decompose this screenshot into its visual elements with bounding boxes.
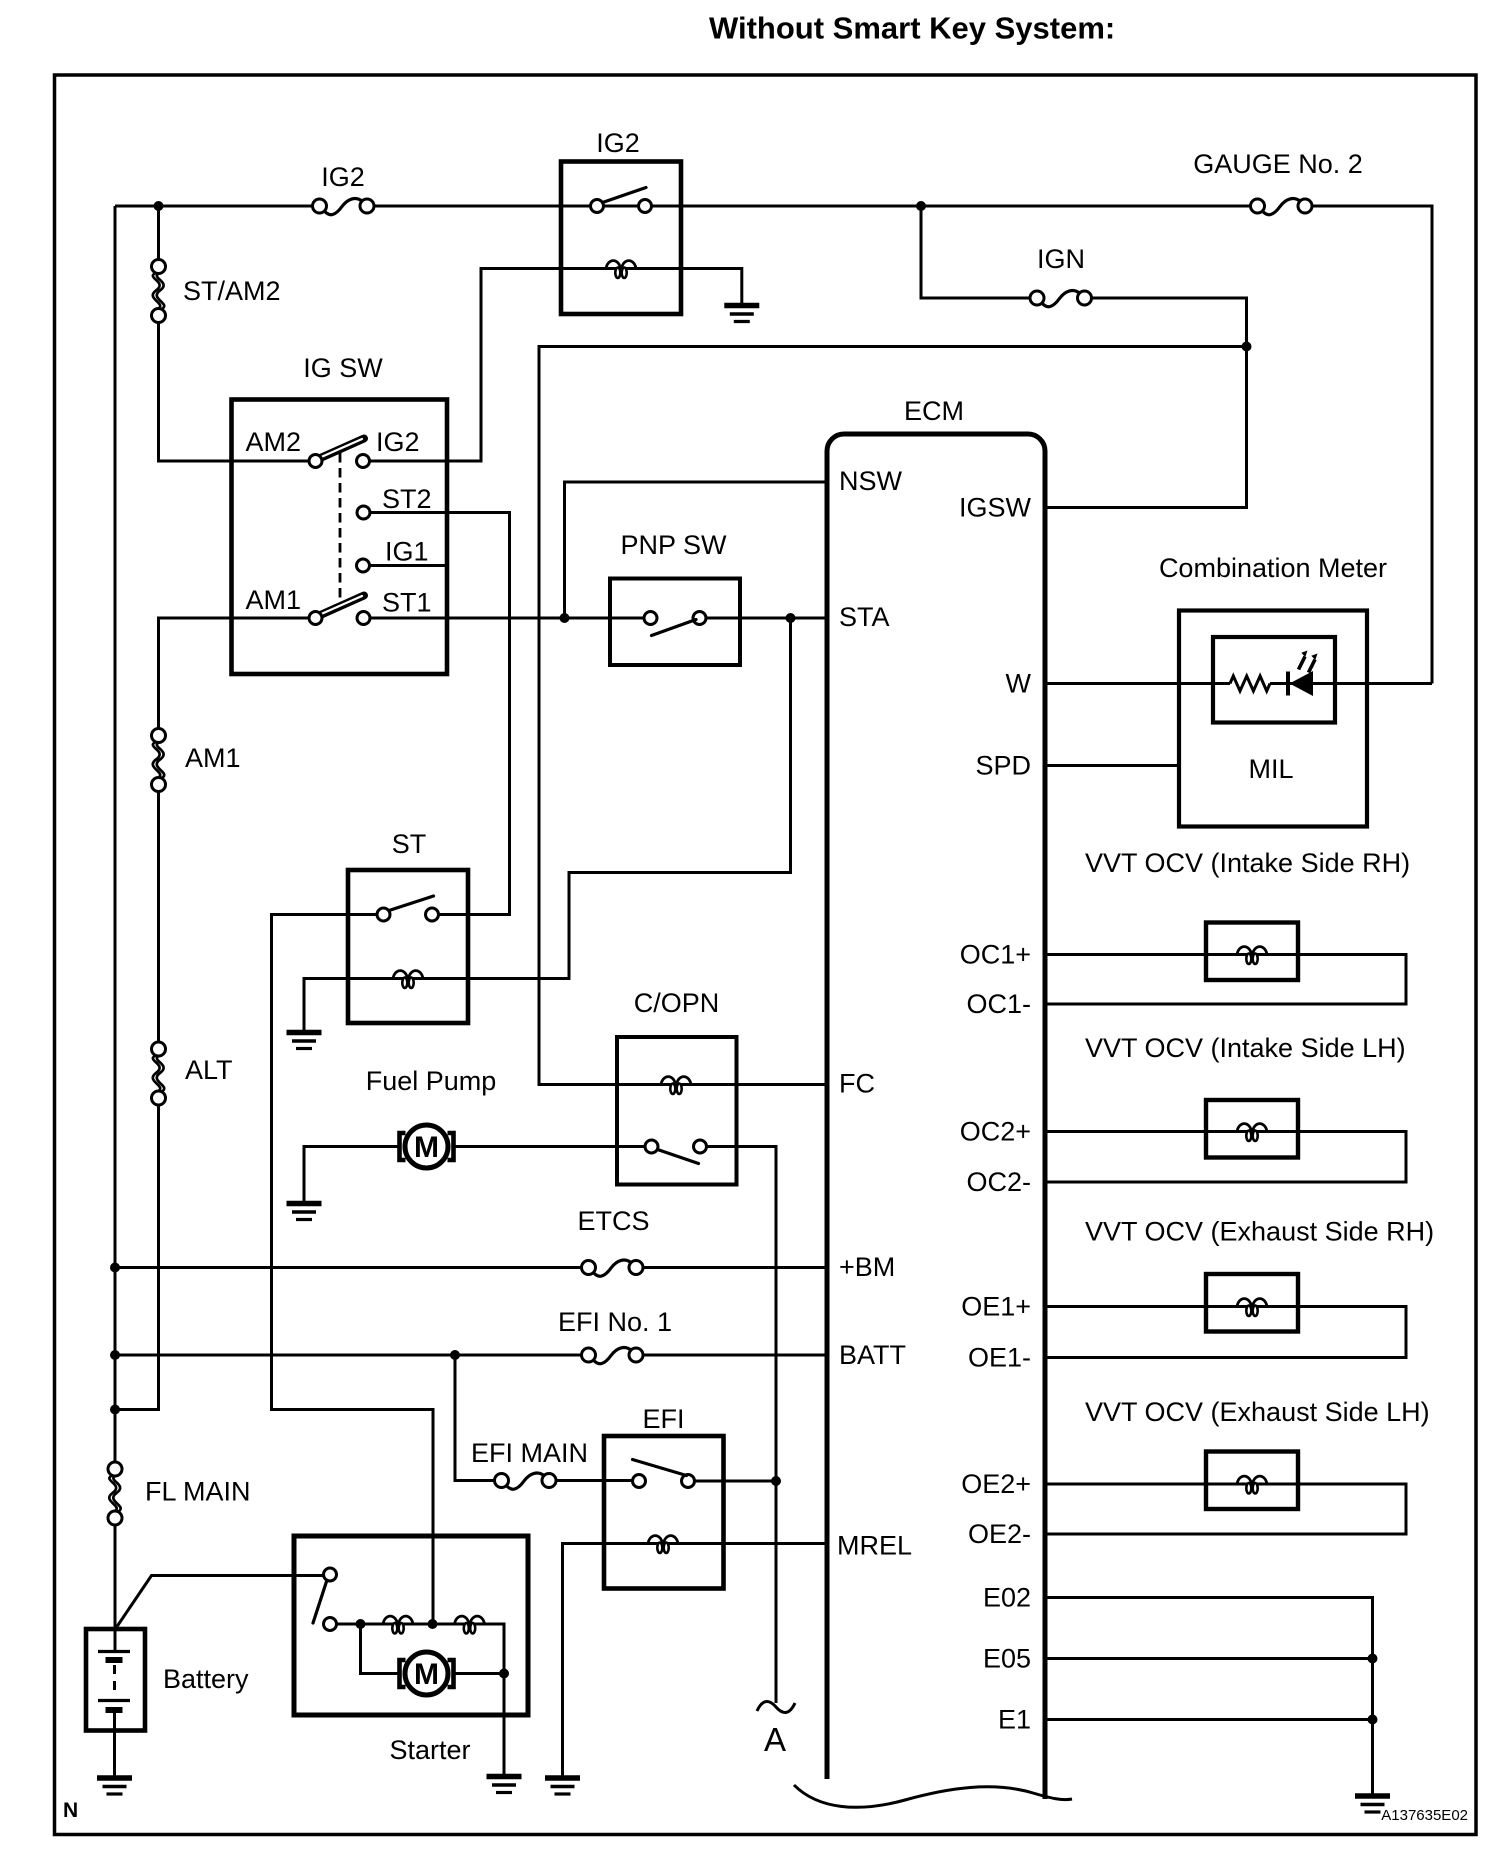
MIL lamp box — [1213, 637, 1335, 723]
svg-text:ETCS: ETCS — [577, 1206, 649, 1236]
node junction BATT row — [110, 1350, 120, 1360]
svg-text:OE1-: OE1- — [968, 1343, 1031, 1373]
wire C/OPN switch to node A rail — [737, 1147, 777, 1704]
ground ST relay coil — [287, 1033, 322, 1049]
svg-text:W: W — [1006, 669, 1032, 699]
VVT OCV exhaust LH coil — [1237, 1476, 1267, 1493]
svg-text:OC1-: OC1- — [966, 989, 1031, 1019]
svg-text:AM1: AM1 — [185, 743, 241, 773]
wire NSW pin — [565, 482, 825, 618]
ground ECM E-lines — [1355, 1796, 1390, 1812]
wire C/OPN switch row — [617, 1145, 737, 1148]
starter switch lever — [313, 1582, 327, 1624]
svg-text:IGN: IGN — [1037, 244, 1085, 274]
wire starter motor left — [361, 1624, 401, 1674]
wire IG2 coil to ground — [681, 269, 742, 304]
node junction E05 — [1368, 1654, 1378, 1664]
ground fuel pump — [287, 1204, 322, 1220]
svg-text:Battery: Battery — [163, 1664, 249, 1694]
VVT OCV intake RH coil — [1237, 947, 1267, 964]
relay C/OPN box — [617, 1037, 737, 1185]
terminal IG2 — [357, 455, 370, 468]
ground starter — [487, 1777, 522, 1793]
battery dashed middle — [113, 1665, 116, 1696]
fuse EFI No. 1 — [582, 1348, 644, 1364]
terminal AM1 — [309, 612, 322, 625]
wire +BM row left — [115, 1266, 582, 1269]
wire EFI switch to node A rail — [695, 1480, 777, 1483]
svg-text:FC: FC — [839, 1069, 875, 1099]
wire battery negative to ground — [113, 1712, 116, 1776]
wire PNP SW row — [610, 617, 740, 620]
solenoid coil 1 — [383, 1616, 413, 1633]
node junction +BM row — [110, 1263, 120, 1273]
PNP SW contacts — [644, 612, 657, 625]
wire BATT row right — [643, 1354, 825, 1357]
wire EFI MAIN fuse to EFI relay — [556, 1479, 633, 1482]
svg-text:OC2-: OC2- — [966, 1167, 1031, 1197]
VVT OCV intake LH coil — [1237, 1124, 1267, 1141]
wire IG2 relay switch row — [561, 205, 681, 208]
wire ST/AM2 to AM2 terminal — [159, 323, 310, 462]
svg-text:E05: E05 — [983, 1644, 1031, 1674]
svg-text:OC1+: OC1+ — [960, 940, 1031, 970]
node junction solenoid mid — [428, 1619, 438, 1629]
svg-text:ALT: ALT — [185, 1055, 233, 1085]
svg-text:OE2+: OE2+ — [961, 1469, 1031, 1499]
VVT OCV intake RH coil box — [1206, 923, 1298, 981]
svg-text:ST: ST — [392, 829, 427, 859]
fusible link FL MAIN — [108, 1462, 122, 1525]
svg-text:Starter: Starter — [389, 1735, 470, 1765]
node junction IGN rail — [1242, 342, 1252, 352]
svg-text:MIL: MIL — [1248, 754, 1293, 784]
wire FL MAIN to battery — [114, 1525, 117, 1650]
wire ST relay coil row — [348, 977, 468, 980]
relay EFI coil — [648, 1536, 678, 1553]
ground battery — [97, 1778, 132, 1794]
battery plate long top — [98, 1650, 130, 1653]
wire battery positive to starter switch — [116, 1576, 324, 1629]
wire IGN rail to C/OPN coil feed — [539, 347, 1247, 1085]
wire ST coil to ground — [304, 979, 348, 1031]
svg-text:NSW: NSW — [839, 466, 903, 496]
fuse IGN — [1030, 291, 1092, 307]
fusible link AM1 — [152, 729, 166, 792]
node junction EFI output — [771, 1476, 781, 1486]
svg-text:A137635E02: A137635E02 — [1381, 1807, 1468, 1824]
svg-text:EFI No. 1: EFI No. 1 — [558, 1307, 672, 1337]
starter switch bottom contact — [324, 1618, 337, 1631]
wire IG2 terminal to IG2 relay coil — [370, 269, 562, 462]
wire OC2 loop — [1047, 1132, 1406, 1183]
wire STA to ST relay coil — [468, 618, 791, 979]
wire EFI coil to MREL — [724, 1542, 825, 1545]
wire battery main feed vertical — [114, 206, 117, 1463]
battery plate short bottom — [106, 1707, 123, 1713]
wire AM1 link to ALT link — [157, 792, 160, 1043]
PNP SW lever — [652, 620, 697, 636]
battery plate long bottom — [98, 1699, 130, 1702]
terminal AM2 — [309, 455, 322, 468]
svg-text:ST1: ST1 — [382, 588, 432, 618]
LED MIL cathode bar — [1286, 672, 1290, 696]
svg-text:C/OPN: C/OPN — [634, 988, 720, 1018]
svg-text:OC2+: OC2+ — [960, 1117, 1031, 1147]
svg-text:VVT OCV (Exhaust Side LH): VVT OCV (Exhaust Side LH) — [1085, 1397, 1430, 1427]
wire fuel pump motor left to ground — [304, 1147, 400, 1202]
relay IG2 coil — [606, 261, 636, 278]
wire ST/AM2 branch top — [157, 206, 160, 260]
terminal IG1 — [357, 559, 370, 572]
battery box — [86, 1629, 145, 1731]
wire GAUGE fuse to W line — [1312, 206, 1433, 684]
svg-text:PNP SW: PNP SW — [620, 530, 727, 560]
fusible link ALT — [152, 1042, 166, 1105]
wire ST relay switch row — [348, 913, 468, 916]
ST relay switch contacts — [377, 908, 390, 921]
resistor MIL — [1230, 676, 1270, 691]
wire OE2 loop — [1047, 1484, 1406, 1534]
wire starter to ground — [503, 1674, 506, 1775]
VVT OCV exhaust LH coil box — [1206, 1452, 1298, 1510]
relay IG2 box — [561, 162, 681, 315]
svg-text:Combination Meter: Combination Meter — [1159, 553, 1387, 583]
wire ST relay switch to starter solenoid — [272, 915, 434, 1624]
switch PNP SW box — [610, 579, 740, 666]
wire ST1 row to PNP SW and STA — [370, 617, 610, 620]
wire IGN branch — [921, 206, 1031, 298]
relay C/OPN coil — [661, 1077, 691, 1094]
battery plate short top — [106, 1657, 123, 1663]
svg-text:A: A — [764, 1721, 786, 1758]
lever AM2-IG2 — [317, 439, 364, 460]
wire IG2 fuse to IG2 relay — [375, 205, 562, 208]
fuse GAUGE No.2 — [1251, 199, 1313, 215]
relay EFI box — [604, 1436, 724, 1589]
EFI switch lever — [633, 1460, 687, 1476]
svg-text:GAUGE No. 2: GAUGE No. 2 — [1193, 149, 1363, 179]
node A break symbol — [757, 1701, 795, 1712]
wire starter motor right — [453, 1672, 504, 1675]
svg-text:Without Smart Key System:: Without Smart Key System: — [709, 11, 1115, 46]
node junction solenoid left — [356, 1619, 366, 1629]
wire W pin row — [1047, 682, 1230, 685]
wire BATT tap down to EFI MAIN fuse — [455, 1355, 495, 1481]
fuse ETCS — [582, 1260, 644, 1276]
relay IG2 switch lever — [603, 188, 647, 203]
C/OPN switch lever — [658, 1150, 699, 1164]
wire fuel pump motor to C/OPN switch — [453, 1145, 645, 1148]
wire starter solenoid row — [337, 1624, 505, 1674]
LED MIL arrow 2 — [1309, 660, 1316, 673]
svg-text:SPD: SPD — [975, 751, 1031, 781]
svg-text:OE2-: OE2- — [968, 1519, 1031, 1549]
relay ST box — [348, 870, 468, 1023]
wire IGSW pin — [1047, 347, 1247, 508]
wire ALT link down to main feed — [115, 1105, 159, 1410]
node junction ST/AM2 tap — [154, 201, 164, 211]
VVT OCV exhaust RH coil — [1237, 1299, 1267, 1316]
fusible link ST/AM2 — [152, 260, 166, 323]
ECM box — [827, 434, 1045, 1799]
relay IG2 switch contacts — [591, 200, 604, 213]
wire E02 row — [1047, 1598, 1373, 1794]
C/OPN switch contacts — [645, 1140, 658, 1153]
node junction EFI MAIN tap — [450, 1350, 460, 1360]
starter switch top contact — [324, 1568, 337, 1581]
wire IG2 relay coil row — [561, 267, 681, 270]
svg-text:AM1: AM1 — [245, 585, 301, 615]
motor starter — [400, 1652, 454, 1695]
ST relay switch lever — [389, 896, 434, 911]
ignition switch IG SW box — [232, 400, 448, 675]
svg-text:N: N — [63, 1799, 78, 1822]
EFI switch contacts — [633, 1475, 646, 1488]
svg-text:IG2: IG2 — [376, 427, 420, 457]
node junction FL MAIN top — [110, 1405, 120, 1415]
svg-text:E1: E1 — [998, 1705, 1031, 1735]
wire E1 row — [1047, 1718, 1373, 1721]
node junction IGN tap — [916, 201, 926, 211]
VVT OCV exhaust RH coil box — [1206, 1274, 1298, 1332]
lever AM1-ST1 — [317, 596, 364, 617]
ground IG2 relay — [724, 306, 759, 322]
svg-text:EFI: EFI — [642, 1404, 684, 1434]
combination meter box — [1179, 611, 1367, 827]
svg-text:AM2: AM2 — [245, 427, 301, 457]
svg-text:IG SW: IG SW — [303, 353, 383, 383]
wire C/OPN coil row to FC — [617, 1083, 825, 1086]
wire IG2 relay to GAUGE fuse — [681, 205, 1252, 208]
LED MIL arrow 1 — [1299, 657, 1306, 670]
wire top row to IG2 fuse — [115, 205, 313, 208]
solenoid coil 2 — [455, 1616, 485, 1633]
VVT OCV intake LH coil box — [1206, 1100, 1298, 1158]
svg-text:EFI MAIN: EFI MAIN — [471, 1438, 588, 1468]
svg-text:FL MAIN: FL MAIN — [145, 1477, 251, 1507]
wire ST2 to ST relay switch — [370, 513, 510, 915]
terminal ST1 — [357, 612, 370, 625]
svg-text:+BM: +BM — [839, 1252, 895, 1282]
svg-text:ST2: ST2 — [382, 484, 432, 514]
terminal ST2 — [357, 506, 370, 519]
svg-text:BATT: BATT — [839, 1340, 906, 1370]
node junction E1 — [1368, 1715, 1378, 1725]
svg-text:IG1: IG1 — [385, 537, 429, 567]
wire IG1 stub — [370, 564, 446, 567]
wire SPD pin row — [1047, 764, 1179, 767]
wire +BM row right — [643, 1266, 825, 1269]
node junction starter output — [499, 1669, 509, 1679]
wire AM1 terminal to AM1 fusible link — [159, 618, 310, 729]
wire feed to FL MAIN link — [114, 1410, 117, 1463]
wire E05 row — [1047, 1657, 1373, 1660]
wire OE1 loop — [1047, 1307, 1406, 1358]
node junction STA tap — [786, 613, 796, 623]
ground EFI coil — [545, 1778, 580, 1794]
svg-text:VVT OCV (Exhaust Side RH): VVT OCV (Exhaust Side RH) — [1085, 1217, 1434, 1247]
node junction NSW tap — [560, 613, 570, 623]
wire EFI coil to ground — [563, 1544, 605, 1776]
ECM torn-edge wave — [794, 1785, 1072, 1807]
svg-text:STA: STA — [839, 602, 890, 632]
svg-text:IG2: IG2 — [321, 162, 365, 192]
wire BATT row left — [115, 1354, 582, 1357]
svg-text:E02: E02 — [983, 1583, 1031, 1613]
relay ST coil — [393, 971, 423, 988]
wire IGN fuse down to junction — [1092, 298, 1247, 347]
svg-text:MREL: MREL — [837, 1531, 912, 1561]
svg-text:IGSW: IGSW — [959, 493, 1032, 523]
IG SW dashed link — [339, 453, 342, 598]
motor fuel pump — [400, 1125, 454, 1168]
starter box — [294, 1536, 528, 1715]
svg-text:Fuel Pump: Fuel Pump — [366, 1066, 497, 1096]
LED MIL triangle — [1290, 671, 1314, 696]
fuse IG2 — [313, 199, 375, 215]
wire EFI coil row — [604, 1542, 724, 1545]
svg-text:ECM: ECM — [904, 396, 964, 426]
svg-text:VVT OCV (Intake Side RH): VVT OCV (Intake Side RH) — [1085, 848, 1410, 878]
fuse EFI MAIN — [495, 1473, 557, 1489]
svg-text:VVT OCV (Intake Side LH): VVT OCV (Intake Side LH) — [1085, 1033, 1406, 1063]
wire OC1 loop — [1047, 955, 1406, 1005]
svg-text:OE1+: OE1+ — [961, 1292, 1031, 1322]
svg-text:ST/AM2: ST/AM2 — [183, 276, 281, 306]
svg-text:IG2: IG2 — [596, 128, 640, 158]
